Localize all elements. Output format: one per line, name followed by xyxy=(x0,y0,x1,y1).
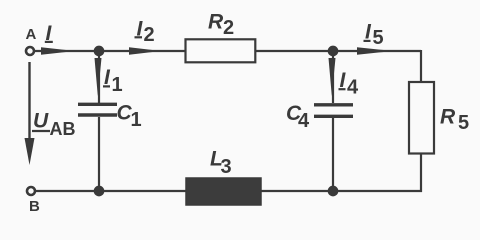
wire: top rail A to R2 xyxy=(34,50,185,52)
current arrow I xyxy=(41,22,75,55)
svg-text:4: 4 xyxy=(347,76,359,98)
node: junction bottom-left xyxy=(94,186,105,197)
wire: top rail R2 to right corner xyxy=(256,50,421,52)
svg-text:2: 2 xyxy=(223,17,234,39)
node: junction top-left xyxy=(94,46,105,57)
svg-text:U: U xyxy=(33,110,49,133)
wire: C1 branch lower xyxy=(98,117,100,191)
terminal B xyxy=(27,187,40,215)
svg-text:R: R xyxy=(208,10,224,33)
current arrow I5 xyxy=(357,21,393,55)
svg-text:A: A xyxy=(26,26,37,43)
current arrow I4 xyxy=(329,58,360,98)
terminal A xyxy=(26,26,37,55)
svg-text:R: R xyxy=(440,106,456,129)
svg-text:1: 1 xyxy=(112,74,123,96)
wire: bottom rail L3 to right corner xyxy=(261,190,422,192)
current arrow I2 xyxy=(129,18,161,55)
node: junction top-right xyxy=(328,46,339,57)
wire: C4 branch lower xyxy=(332,118,334,191)
node: junction bottom-right xyxy=(328,186,339,197)
svg-text:2: 2 xyxy=(144,24,155,46)
resistor R5 xyxy=(409,82,469,154)
capacitor C1 xyxy=(78,102,142,132)
current arrow I1 xyxy=(95,58,123,96)
inductor L3 xyxy=(186,148,261,206)
svg-text:B: B xyxy=(29,198,40,215)
voltage arrow U_AB xyxy=(25,62,76,165)
svg-text:4: 4 xyxy=(298,110,310,132)
svg-text:5: 5 xyxy=(373,27,384,49)
svg-text:AB: AB xyxy=(50,119,76,139)
svg-text:3: 3 xyxy=(221,156,232,178)
resistor R2 xyxy=(186,10,256,62)
svg-text:1: 1 xyxy=(131,109,142,131)
wire: bottom rail B to L3 xyxy=(35,190,186,192)
svg-text:5: 5 xyxy=(458,112,469,134)
wire: right branch top (corner to R5) xyxy=(420,50,422,82)
wire: right branch bottom (R5 to bottom rail) xyxy=(420,154,422,192)
wire: C1 branch upper xyxy=(98,51,100,103)
wire: C4 branch upper xyxy=(332,51,334,103)
capacitor C4 xyxy=(286,102,353,132)
